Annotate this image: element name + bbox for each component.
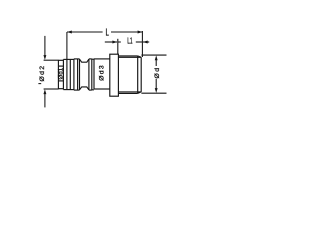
L1 right arrow tail bbox=[143, 41, 149, 43]
L right arrowhead bbox=[138, 31, 143, 34]
bar2 right edge bbox=[91, 59, 93, 90]
L left extension line bbox=[66, 32, 68, 59]
L left arrowhead bbox=[67, 31, 72, 34]
thread end face bbox=[140, 57, 142, 92]
svg-text:Ød3: Ød3 bbox=[99, 64, 106, 81]
Od2 top extent line bbox=[44, 59, 59, 61]
rib line 2 bbox=[69, 59, 71, 89]
Od2 top arrow tail bbox=[44, 36, 46, 56]
bar2 bottom bbox=[89, 89, 92, 91]
tip end face bbox=[57, 60, 59, 89]
Od top arrowhead pointing up bbox=[155, 55, 158, 60]
L1 left extension line bbox=[117, 39, 119, 54]
collar right edge bbox=[93, 59, 95, 89]
svg-text:L1: L1 bbox=[127, 37, 133, 45]
bore line lower bbox=[58, 80, 63, 82]
label L1 bbox=[127, 37, 133, 45]
section C bottom bbox=[94, 88, 110, 90]
L1 left arrowhead pointing right bbox=[112, 41, 117, 44]
thread chamfer start line bbox=[137, 56, 139, 94]
rib line 1 bbox=[66, 59, 68, 89]
Od dim line lower shaft bbox=[155, 79, 157, 89]
Od dim line upper shaft bbox=[155, 60, 157, 67]
Od bottom arrowhead pointing down bbox=[155, 88, 158, 93]
band top bbox=[74, 58, 80, 60]
svg-text:Ød2: Ød2 bbox=[39, 65, 46, 82]
thread crest top bbox=[118, 55, 137, 57]
dimension L line left segment bbox=[67, 31, 103, 33]
tip top edge bbox=[58, 59, 63, 61]
bar2 left edge bbox=[88, 59, 90, 90]
svg-text:Ød1: Ød1 bbox=[58, 67, 65, 79]
Od2 bottom arrow tail bbox=[44, 94, 46, 108]
dimension L line right segment bbox=[111, 31, 142, 33]
chamfer top diagonal bbox=[138, 56, 142, 57]
label L bbox=[105, 26, 109, 38]
collar top bbox=[92, 58, 94, 60]
band bottom bbox=[74, 89, 80, 91]
L1 line right segment bbox=[136, 41, 143, 43]
L1 right outside arrowhead pointing left bbox=[143, 41, 148, 44]
bore line upper bbox=[58, 65, 63, 67]
tip bottom edge bbox=[58, 88, 63, 90]
L right extension line bbox=[141, 31, 143, 57]
thread root bottom bbox=[118, 91, 141, 93]
groove top profile bbox=[80, 59, 89, 62]
hex flange bbox=[110, 54, 119, 96]
tick below Od2 label bbox=[38, 83, 41, 85]
bar2 top bbox=[89, 58, 92, 60]
step at end of tip bbox=[62, 59, 64, 89]
Od bottom extent line bbox=[141, 92, 166, 94]
collar bottom bbox=[92, 89, 94, 91]
mid section bottom bbox=[63, 89, 74, 91]
Od2 bottom extent line bbox=[44, 88, 59, 90]
groove bottom profile bbox=[80, 87, 89, 90]
mid section top bbox=[63, 58, 74, 60]
section C top bbox=[94, 58, 110, 60]
L1 line left tail bbox=[105, 41, 117, 43]
Od top extent line bbox=[141, 54, 166, 56]
chamfer bottom diagonal bbox=[138, 92, 142, 94]
Od2 bottom arrowhead pointing up bbox=[43, 89, 46, 94]
band left edge bbox=[73, 59, 75, 90]
svg-text:Ød: Ød bbox=[154, 67, 161, 79]
thread root top bbox=[118, 56, 141, 58]
svg-text:L: L bbox=[105, 26, 109, 38]
band inner line bbox=[77, 59, 79, 90]
L1 stub right of extension bbox=[118, 41, 121, 43]
Od2 top arrowhead pointing down bbox=[43, 55, 46, 60]
band right edge bbox=[79, 59, 81, 90]
thread crest bottom bbox=[118, 92, 137, 94]
